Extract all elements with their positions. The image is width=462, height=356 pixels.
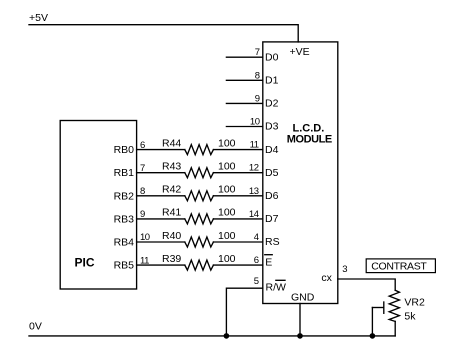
svg-text:100: 100 <box>218 230 236 242</box>
svg-text:100: 100 <box>218 137 236 149</box>
wire R/W to 0V <box>226 288 262 336</box>
svg-text:D4: D4 <box>265 144 279 156</box>
resistor R40 <box>185 237 214 247</box>
svg-text:14: 14 <box>249 209 259 220</box>
wire VR2 bottom to 0V <box>394 321 396 336</box>
svg-text:R40: R40 <box>162 230 181 242</box>
svg-text:D6: D6 <box>265 190 279 202</box>
svg-text:CONTRAST: CONTRAST <box>371 261 427 273</box>
svg-text:D7: D7 <box>265 213 279 225</box>
wire +5V rail <box>29 25 298 42</box>
wire RB5 to R39 <box>137 264 185 266</box>
resistor R43 <box>185 168 214 178</box>
svg-text:+VE: +VE <box>290 46 310 58</box>
wire RB4 to R40 <box>137 241 185 243</box>
CONTRAST label box <box>366 259 435 273</box>
wire RB2 to R42 <box>137 195 185 197</box>
svg-text:0V: 0V <box>29 321 42 333</box>
svg-text:4: 4 <box>254 232 259 243</box>
potentiometer VR2 body <box>389 290 399 321</box>
resistor R42 <box>185 191 214 201</box>
svg-text:RB1: RB1 <box>114 167 135 179</box>
wire R40 to RS <box>213 241 262 243</box>
svg-text:PIC: PIC <box>75 256 95 270</box>
svg-text:6: 6 <box>254 255 259 266</box>
junction wiper-0V <box>370 333 376 339</box>
svg-text:+5V: +5V <box>29 12 48 24</box>
svg-text:D5: D5 <box>265 167 279 179</box>
svg-text:R41: R41 <box>162 207 181 219</box>
wire R42 to D6 <box>213 195 262 197</box>
wire RB3 to R41 <box>137 218 185 220</box>
svg-text:11: 11 <box>250 140 259 151</box>
wire R43 to D5 <box>213 172 262 174</box>
LCD module U2 box <box>263 42 338 304</box>
wire cx to VR2 <box>338 279 395 290</box>
svg-text:5: 5 <box>254 276 259 287</box>
svg-text:9: 9 <box>255 93 260 104</box>
resistor R41 <box>185 214 214 224</box>
svg-text:RB4: RB4 <box>114 237 135 249</box>
svg-text:R/W: R/W <box>266 282 287 294</box>
svg-text:RB2: RB2 <box>114 190 135 202</box>
svg-text:RB5: RB5 <box>114 260 135 272</box>
svg-text:8: 8 <box>255 70 260 81</box>
svg-text:VR2: VR2 <box>404 297 425 309</box>
svg-text:5k: 5k <box>404 310 416 322</box>
svg-text:RB0: RB0 <box>114 144 135 156</box>
resistor R39 <box>185 260 214 270</box>
wire R39 to E <box>213 264 262 266</box>
junction R/W-0V <box>224 333 230 339</box>
svg-text:RS: RS <box>265 236 280 248</box>
wire D3 stub <box>226 126 262 128</box>
svg-text:E: E <box>265 256 272 268</box>
svg-text:D1: D1 <box>265 75 279 87</box>
PIC U1 box <box>60 121 136 290</box>
wire GND to 0V <box>299 304 301 336</box>
wire D1 stub <box>226 79 262 81</box>
svg-text:12: 12 <box>249 163 259 174</box>
wire 0V rail <box>29 335 395 337</box>
wire wiper to 0V <box>371 308 373 336</box>
wire RB0 to R44 <box>137 149 185 151</box>
svg-text:100: 100 <box>218 184 236 196</box>
svg-text:3: 3 <box>342 264 347 275</box>
svg-text:13: 13 <box>249 186 259 197</box>
svg-text:D3: D3 <box>265 121 279 133</box>
wire D0 stub <box>226 56 262 58</box>
wire RB1 to R43 <box>137 172 185 174</box>
svg-text:100: 100 <box>218 253 236 265</box>
VR2 wiper <box>372 307 383 309</box>
svg-text:R39: R39 <box>162 253 181 265</box>
resistor R44 <box>185 145 214 155</box>
wire R41 to D7 <box>213 218 262 220</box>
svg-text:R43: R43 <box>162 161 181 173</box>
svg-text:D2: D2 <box>265 98 279 110</box>
svg-text:100: 100 <box>218 161 236 173</box>
svg-text:R42: R42 <box>162 184 181 196</box>
svg-text:MODULE: MODULE <box>287 133 332 145</box>
svg-text:10: 10 <box>250 117 260 128</box>
svg-text:cx: cx <box>321 272 332 284</box>
wire R44 to D4 <box>213 149 262 151</box>
junction GND-0V <box>297 333 303 339</box>
svg-text:RB3: RB3 <box>114 213 135 225</box>
svg-text:GND: GND <box>291 292 315 304</box>
svg-text:7: 7 <box>255 47 260 58</box>
svg-text:R44: R44 <box>162 137 181 149</box>
wire D2 stub <box>226 102 262 104</box>
svg-text:100: 100 <box>218 207 236 219</box>
svg-text:D0: D0 <box>265 51 279 63</box>
